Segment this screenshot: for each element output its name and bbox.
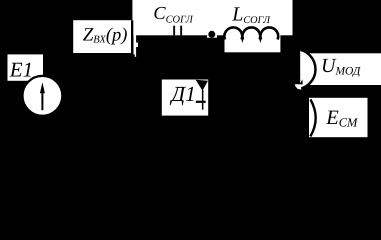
inductor L: junction spike 1 <box>241 38 244 43</box>
diode D1: lead between triangle and bar <box>202 90 204 101</box>
wire: white pocket under junction dot <box>207 35 217 37</box>
wire: black notch in stub bottom <box>134 54 135 57</box>
inductor L: three humps <box>224 27 242 39</box>
capacitor C: right plate <box>180 26 182 36</box>
inductor L: junction spike 2 <box>259 38 262 43</box>
source U_MOD white box <box>306 53 381 85</box>
source U_MOD arrow notch <box>300 79 303 84</box>
diode D1: cathode bar <box>196 101 206 103</box>
current source E1 arrow <box>41 90 43 111</box>
diode Д1 label box <box>162 80 208 116</box>
junction dot node A <box>208 31 215 38</box>
node A: top horizontal net white band <box>132 0 292 35</box>
diode D1: bottom lead <box>202 103 204 110</box>
wire: small white bump on stub <box>136 43 138 48</box>
wire: vertical stub right of Z box <box>134 34 137 57</box>
svg-text:Д1: Д1 <box>169 82 195 106</box>
current source E1 circle <box>23 76 63 116</box>
capacitor C: left plate <box>173 26 175 36</box>
source E_CM white box <box>309 98 368 137</box>
diode D1: triangle (anode) <box>196 80 208 91</box>
source E1 label box <box>8 54 44 80</box>
source E_CM circle arc <box>310 99 315 136</box>
svg-text:ZВХ(p): ZВХ(p) <box>83 24 128 45</box>
source U_MOD circle (right sliver visible) <box>276 49 316 89</box>
wire: white block under inductor <box>225 30 281 52</box>
impedance block Z_ВХ white box <box>73 20 131 53</box>
wire: black lead at right edge of Z box <box>131 20 133 56</box>
svg-text:E1: E1 <box>9 57 33 81</box>
wire: white pocket at bottom-left of U_MOD circle <box>295 84 301 89</box>
